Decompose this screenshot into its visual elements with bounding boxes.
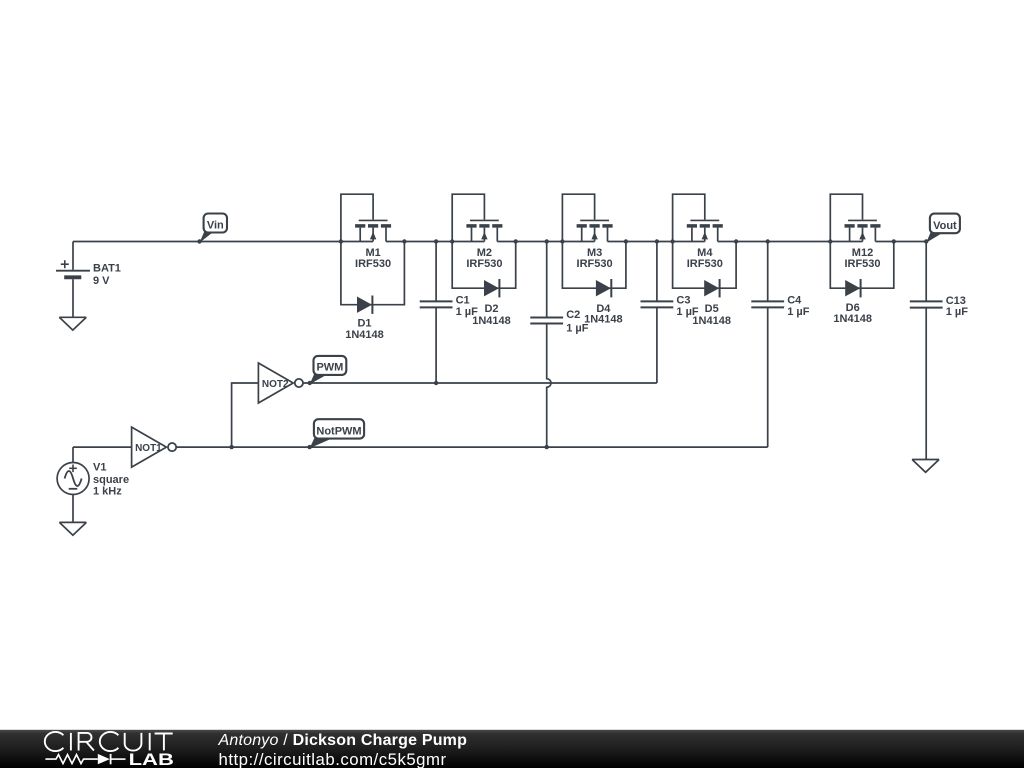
label M2 name/value bbox=[466, 247, 502, 270]
wire Vin rail segment (BAT1 to M1) bbox=[73, 241, 373, 243]
wire bypass loop for D2 bbox=[452, 242, 516, 289]
svg-text:1N4148: 1N4148 bbox=[472, 315, 511, 327]
svg-text:http://circuitlab.com/c5k5gmr: http://circuitlab.com/c5k5gmr bbox=[219, 750, 447, 768]
svg-text:M2: M2 bbox=[477, 247, 492, 259]
svg-text:IRF530: IRF530 bbox=[466, 258, 502, 270]
wire C2 bottom lead with hop over PWM bus bbox=[547, 324, 551, 448]
svg-text:NOT1: NOT1 bbox=[135, 443, 162, 454]
wire bypass loop for D4 bbox=[562, 242, 626, 289]
svg-text:square: square bbox=[93, 474, 129, 486]
junction Vout node bbox=[924, 239, 928, 243]
junction C1/PWM bus bbox=[434, 381, 438, 385]
wire tap to NOT2 input bbox=[232, 383, 259, 447]
junction M3 drain/gate node bbox=[560, 239, 564, 243]
svg-text:C3: C3 bbox=[676, 295, 690, 307]
node Vout flag bbox=[926, 214, 960, 243]
svg-text:D5: D5 bbox=[705, 303, 719, 315]
svg-text:1 kHz: 1 kHz bbox=[93, 486, 122, 498]
label D6 name/value bbox=[833, 302, 872, 325]
junction C2/NotPWM bus bbox=[545, 445, 549, 449]
junction C3 top / rail bbox=[655, 239, 659, 243]
transistor M3 bbox=[562, 194, 612, 241]
svg-text:1 µF: 1 µF bbox=[566, 322, 589, 334]
capacitor C3 bbox=[641, 242, 674, 308]
junction M4 drain/gate node bbox=[670, 239, 674, 243]
CircuitLab logo resistor-diode glyph bbox=[45, 754, 125, 764]
junction M1 drain/gate node bbox=[339, 239, 343, 243]
ground (BAT1) bbox=[59, 317, 86, 330]
capacitor C13 bbox=[910, 242, 943, 308]
battery BAT1 bbox=[56, 242, 90, 318]
junction C4 top / rail bbox=[766, 239, 770, 243]
transistor M2 bbox=[452, 194, 502, 241]
svg-text:C13: C13 bbox=[946, 295, 966, 307]
label M12 name/value bbox=[844, 247, 880, 270]
transistor M12 bbox=[830, 194, 880, 241]
node PWM anchor junction bbox=[308, 381, 312, 385]
svg-text:BAT1: BAT1 bbox=[93, 263, 121, 275]
diode D4 bbox=[596, 279, 611, 297]
wire rail segment M1-source to M2 bbox=[386, 241, 484, 243]
svg-text:NOT2: NOT2 bbox=[262, 379, 289, 390]
label D1 name/value bbox=[345, 317, 384, 341]
svg-text:IRF530: IRF530 bbox=[844, 258, 880, 270]
inverter NOT1 bbox=[132, 427, 177, 467]
junction M1 source / D1 cathode node bbox=[402, 239, 406, 243]
svg-text:M12: M12 bbox=[852, 247, 873, 259]
wire NOT1 output / NotPWM bus bbox=[176, 446, 767, 448]
wire C4 bottom lead to NotPWM bus end bbox=[767, 307, 769, 447]
wire bypass loop for D6 bbox=[830, 242, 894, 289]
transistor M1 bbox=[341, 194, 391, 241]
svg-text:D6: D6 bbox=[846, 302, 860, 314]
label C4 name/value bbox=[787, 295, 810, 319]
wire C1 bottom lead to PWM bus bbox=[435, 307, 437, 383]
svg-text:M1: M1 bbox=[365, 247, 380, 259]
svg-text:D1: D1 bbox=[357, 317, 371, 329]
diode D2 bbox=[484, 279, 499, 297]
svg-text:V1: V1 bbox=[93, 462, 106, 474]
svg-text:1 µF: 1 µF bbox=[456, 306, 479, 318]
junction NOT2 feed tap bbox=[229, 445, 233, 449]
diode D6 bbox=[845, 279, 860, 297]
node NotPWM anchor junction bbox=[307, 445, 311, 449]
svg-text:Vin: Vin bbox=[207, 219, 224, 231]
svg-text:Vout: Vout bbox=[933, 220, 957, 232]
wire rail segment M2-source to M3 bbox=[497, 241, 594, 243]
wire rail segment M4-source to M12 bbox=[718, 241, 863, 243]
svg-text:1N4148: 1N4148 bbox=[345, 329, 384, 341]
label NOT1 name bbox=[135, 443, 162, 454]
wire V1 to NOT1 input bbox=[73, 446, 132, 448]
svg-text:NotPWM: NotPWM bbox=[316, 425, 361, 437]
svg-text:IRF530: IRF530 bbox=[355, 258, 391, 270]
node PWM flag bbox=[310, 356, 347, 384]
diode D1 bbox=[357, 296, 372, 314]
junction M3 source / D4 cathode node bbox=[624, 239, 628, 243]
svg-text:1N4148: 1N4148 bbox=[584, 314, 623, 326]
label M4 name/value bbox=[687, 247, 723, 270]
label V1 name/value bbox=[93, 462, 129, 498]
svg-text:M4: M4 bbox=[697, 247, 713, 259]
label M3 name/value bbox=[577, 247, 613, 270]
capacitor C2 bbox=[530, 242, 563, 324]
junction M2 source / D2 cathode node bbox=[514, 239, 518, 243]
ground (C13 / Vout return) bbox=[912, 460, 939, 473]
label C2 name/value bbox=[566, 309, 589, 334]
wire bypass loop for D5 bbox=[673, 242, 737, 289]
node Vin flag bbox=[200, 214, 228, 243]
label D2 name/value bbox=[472, 303, 511, 327]
svg-text:1 µF: 1 µF bbox=[787, 306, 810, 318]
node NotPWM flag bbox=[310, 419, 365, 448]
capacitor C4 bbox=[751, 242, 784, 308]
label NOT2 name bbox=[262, 379, 289, 390]
wire bypass loop for D1 bbox=[341, 242, 405, 305]
capacitor C1 bbox=[420, 242, 453, 308]
svg-text:9 V: 9 V bbox=[93, 275, 110, 287]
junction M4 source / D5 cathode node bbox=[734, 239, 738, 243]
wire C3 bottom lead to PWM bus end bbox=[656, 307, 658, 383]
label D5 name/value bbox=[692, 303, 731, 327]
junction M12 drain/gate node bbox=[828, 239, 832, 243]
junction C2 top / rail bbox=[545, 239, 549, 243]
svg-text:Antonyo / Dickson Charge Pump: Antonyo / Dickson Charge Pump bbox=[218, 732, 468, 749]
svg-text:C2: C2 bbox=[566, 309, 580, 321]
svg-text:1N4148: 1N4148 bbox=[833, 313, 872, 325]
diode D5 bbox=[704, 279, 719, 297]
label C13 name/value bbox=[946, 295, 969, 318]
wire rail segment M12-source to Vout bbox=[875, 241, 926, 243]
svg-text:M3: M3 bbox=[587, 247, 602, 259]
svg-text:PWM: PWM bbox=[316, 362, 343, 374]
label C3 name/value bbox=[676, 295, 699, 319]
CircuitLab logo CIRCUIT bbox=[45, 732, 173, 751]
svg-text:1 µF: 1 µF bbox=[946, 306, 969, 318]
junction M12 source / D6 cathode node bbox=[892, 239, 896, 243]
voltage source V1 bbox=[57, 447, 89, 522]
transistor M4 bbox=[673, 194, 723, 241]
label C1 name/value bbox=[456, 295, 479, 319]
node Vin anchor junction bbox=[197, 239, 201, 243]
junction C1 top / rail bbox=[434, 239, 438, 243]
label BAT1 name/value bbox=[93, 263, 121, 287]
svg-text:C1: C1 bbox=[456, 295, 470, 307]
label M1 name/value bbox=[355, 247, 391, 270]
inverter NOT2 bbox=[258, 363, 303, 403]
svg-text:LAB: LAB bbox=[129, 752, 174, 768]
label D4 name/value bbox=[584, 303, 623, 326]
wire rail segment M3-source to M4 bbox=[608, 241, 705, 243]
junction M2 drain/gate node bbox=[450, 239, 454, 243]
svg-text:1 µF: 1 µF bbox=[676, 306, 699, 318]
svg-text:D2: D2 bbox=[484, 303, 498, 315]
svg-text:C4: C4 bbox=[787, 295, 802, 307]
svg-text:IRF530: IRF530 bbox=[577, 258, 613, 270]
ground (V1) bbox=[59, 522, 86, 535]
wire C13 bottom lead to ground bbox=[925, 308, 927, 460]
wire NOT2 output / PWM bus bbox=[303, 382, 657, 384]
footer bar bbox=[0, 730, 1024, 768]
svg-text:IRF530: IRF530 bbox=[687, 258, 723, 270]
